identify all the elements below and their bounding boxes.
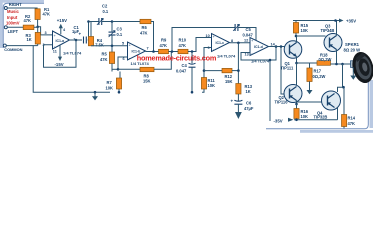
op-amp IC1-c — [206, 34, 234, 52]
ground arrow input rail — [92, 91, 98, 101]
svg-text:47K: 47K — [160, 43, 168, 48]
node output feedback junction — [341, 63, 344, 66]
op-amp IC1-a — [43, 28, 76, 53]
svg-text:RIGHT: RIGHT — [9, 2, 22, 7]
svg-text:10K: 10K — [301, 28, 309, 33]
svg-text:47K: 47K — [24, 18, 32, 23]
ground speaker return — [350, 67, 356, 79]
resistor R1 47K — [35, 7, 50, 27]
wire IC1-b output — [146, 51, 159, 53]
node LEFT input terminal — [4, 26, 18, 34]
svg-text:Input: Input — [7, 15, 18, 20]
node C4 ground rail — [191, 91, 194, 94]
transistor Q3 TIP34B — [321, 23, 343, 51]
wire R18 to speaker — [331, 63, 351, 65]
node B top rail — [111, 20, 114, 23]
wire base drive to Q2 — [281, 47, 286, 95]
resistor R16 10K — [294, 104, 309, 121]
resistor R10 47K — [178, 37, 188, 53]
node IC1-a output junction — [75, 39, 78, 42]
resistor R12 15K — [204, 68, 238, 83]
resistor R9 47K — [159, 37, 169, 53]
wire R15 to Q3 base — [296, 35, 326, 37]
svg-text:+: + — [231, 99, 234, 104]
label 1/4 TL074 IC1-c — [217, 53, 236, 58]
wire COMMON to ground rail — [33, 46, 110, 93]
ground below R17 — [307, 82, 313, 95]
svg-text:R14: R14 — [348, 116, 356, 121]
node Q2 emitter junction — [295, 103, 298, 106]
wire R4 to IC1-b pin5 — [91, 45, 129, 47]
svg-text:7.5K: 7.5K — [95, 43, 104, 48]
resistor R11 10K — [201, 78, 215, 93]
svg-text:0.047: 0.047 — [243, 32, 254, 37]
wire LEFT input to R2 — [7, 26, 23, 28]
svg-text:C2: C2 — [102, 4, 108, 9]
resistor R8 15K — [118, 67, 154, 83]
svg-text:IC1-c: IC1-c — [216, 41, 225, 45]
svg-text:0.1: 0.1 — [117, 32, 123, 37]
svg-text:LEFT: LEFT — [8, 29, 19, 34]
svg-text:+35V: +35V — [346, 19, 356, 24]
wire loop tap to -35V rail — [269, 59, 272, 121]
wire R8 to R9 R10 junction — [154, 52, 171, 70]
node junction R1 R2 R3 — [36, 26, 39, 29]
ground below C6 — [235, 104, 242, 119]
wire C5 feedback riser — [172, 28, 235, 52]
wire Q1 emitter to Q2 collector — [296, 63, 298, 85]
resistor R2 47K — [23, 14, 34, 30]
svg-text:1/4 TL074: 1/4 TL074 — [63, 51, 82, 56]
node RIGHT input terminal — [4, 2, 22, 9]
wire IC1-d feedback loop pin13 — [241, 47, 276, 61]
node base drive junction — [280, 45, 283, 48]
svg-text:IC1-a: IC1-a — [56, 39, 65, 43]
op-amp IC1-b — [122, 41, 149, 61]
node R15 Q1 collector junction — [295, 35, 298, 38]
wire C5 to output node — [238, 28, 256, 43]
node IC1-b output junction — [152, 50, 155, 53]
border frame top-left — [3, 3, 44, 48]
wire Q4 emitter to -35V rail — [337, 108, 339, 120]
svg-text:-15V: -15V — [55, 62, 64, 67]
svg-text:1/4 TL074: 1/4 TL074 — [251, 58, 270, 63]
svg-text:C6: C6 — [246, 100, 252, 105]
svg-text:R7: R7 — [107, 80, 113, 85]
label 1/4 TL074 IC1-b — [131, 61, 150, 66]
svg-text:Music: Music — [7, 9, 20, 14]
power -15V IC1-a — [55, 45, 64, 68]
svg-text:47K: 47K — [100, 57, 108, 62]
speaker SPKR1 8ohm 20W — [344, 42, 373, 85]
wire RIGHT input to R1 — [7, 7, 37, 9]
svg-text:0Ω,2W: 0Ω,2W — [313, 74, 326, 79]
svg-text:R17: R17 — [314, 68, 322, 73]
capacitor C2 0.1 — [97, 4, 109, 26]
watermark homemade-circuits.com — [137, 54, 217, 63]
page margin bottom-right light blue — [300, 80, 373, 133]
wire Q2 emitter to node — [296, 101, 298, 105]
page margin top-left light blue — [0, 0, 44, 48]
node Q3 output junction — [335, 63, 338, 66]
node C5 output junction — [255, 42, 258, 45]
wire Q4 collector — [338, 87, 344, 92]
power rail +35V — [293, 19, 356, 24]
svg-text:COMMON: COMMON — [4, 47, 22, 52]
wire Q3 emitter to output node — [336, 50, 338, 65]
svg-text:3: 3 — [45, 31, 47, 35]
resistor R13 1K — [236, 84, 253, 95]
svg-text:6: 6 — [123, 57, 125, 61]
resistor R3 1K — [26, 27, 41, 46]
svg-text:10K: 10K — [106, 86, 114, 91]
wire Q2 node to Q4 base — [297, 101, 322, 103]
svg-text:R9: R9 — [161, 37, 167, 42]
resistor R15 10K — [293, 21, 309, 37]
op-amp IC1-d — [244, 38, 276, 57]
wire output node down to R14 — [343, 64, 345, 115]
svg-text:10K: 10K — [208, 83, 216, 88]
svg-text:TIP111: TIP111 — [281, 65, 294, 70]
wire Q1 collector — [296, 36, 298, 43]
wire emitter node to R18 — [297, 62, 318, 64]
svg-text:15K: 15K — [225, 79, 233, 84]
node junction C3 R5 pin5 — [111, 45, 114, 48]
node junction R9 R10 C5 — [171, 50, 174, 53]
svg-text:47K: 47K — [348, 121, 356, 126]
resistor R14 47K — [342, 115, 356, 129]
svg-text:1K: 1K — [27, 37, 32, 42]
wire IC1-b pin6 elbow — [118, 57, 128, 69]
svg-text:10: 10 — [206, 34, 210, 38]
transistor Q1 TIP111 — [281, 41, 302, 71]
svg-text:47µF: 47µF — [244, 106, 254, 111]
capacitor C1 1uF — [72, 25, 86, 44]
label Music Input 100mV — [6, 9, 20, 25]
svg-text:11: 11 — [53, 50, 57, 54]
wire R10 to pin10 elbow — [188, 38, 212, 52]
node junction C4 tap — [191, 50, 194, 53]
wire IC1-c pin9 to R11 R12 — [204, 48, 212, 78]
node R12 R13 junction — [237, 69, 240, 72]
border bottom-right — [266, 70, 368, 129]
svg-text:R5: R5 — [102, 52, 108, 57]
svg-text:1/4 TL074: 1/4 TL074 — [217, 53, 236, 58]
resistor R5 47K — [100, 46, 115, 72]
wire C1 to node A riser — [87, 22, 90, 41]
svg-text:TIP34B: TIP34B — [321, 28, 335, 33]
resistor R17 0ohm2 2W — [307, 63, 326, 82]
capacitor C4 0.047 — [176, 52, 196, 93]
svg-text:R10: R10 — [179, 37, 187, 42]
wire Q1 emitter to node — [296, 57, 298, 64]
node A top rail — [87, 20, 90, 23]
svg-text:0.1: 0.1 — [103, 9, 109, 14]
wire node B to R6 — [112, 21, 140, 23]
svg-text:15K: 15K — [143, 78, 151, 83]
resistor R7 10K — [106, 72, 122, 93]
wire Q3 collector to +35V — [334, 19, 337, 35]
svg-text:+: + — [79, 31, 82, 36]
node R7 ground rail — [118, 91, 121, 94]
svg-text:10K: 10K — [301, 114, 309, 119]
transistor Q4 TIP32B — [314, 91, 341, 119]
svg-text:47K: 47K — [140, 30, 148, 35]
resistor R4 7.5K — [88, 22, 103, 48]
wire junction to IC1-a pin3 — [38, 27, 53, 35]
node R14 Q4 collector junction — [342, 86, 345, 89]
capacitor C6 47uF — [231, 94, 254, 111]
svg-text:IC1-d: IC1-d — [254, 45, 263, 49]
node pin6 R5 R7 junction — [117, 68, 120, 71]
svg-text:-35V: -35V — [274, 119, 283, 124]
svg-text:12: 12 — [244, 38, 248, 42]
wire COMMON to R3 — [6, 45, 37, 47]
node COMMON terminal — [3, 44, 22, 52]
resistor R18 0ohm2 2W — [317, 53, 331, 66]
wire R2 to junction — [34, 26, 38, 29]
svg-text:0Ω,2W: 0Ω,2W — [319, 57, 332, 62]
svg-text:C3: C3 — [117, 27, 123, 32]
wire C2 to node B — [102, 21, 112, 23]
svg-text:SPKR1: SPKR1 — [345, 42, 360, 47]
svg-text:1K: 1K — [246, 89, 251, 94]
label 1/4 TL074 IC1-d — [251, 58, 270, 63]
wire IC1-a feedback loop to pin2 — [44, 40, 77, 67]
transistor Q2 TIP116 — [275, 85, 303, 105]
svg-text:TIP116: TIP116 — [275, 99, 289, 104]
capacitor C5 0.047 — [233, 24, 253, 37]
node IC1-d output junction — [275, 45, 278, 48]
svg-text:7: 7 — [147, 47, 149, 51]
power +15V IC1-a — [57, 18, 67, 35]
wire R6 to IC1-b output — [151, 22, 154, 52]
svg-text:0.047: 0.047 — [176, 68, 187, 73]
svg-text:47K: 47K — [179, 43, 187, 48]
wire output to R13 column — [237, 43, 239, 84]
wire R9 to R10 — [169, 51, 179, 53]
svg-text:C4: C4 — [182, 63, 188, 68]
svg-text:+15V: +15V — [57, 18, 67, 23]
node Q1 emitter junction — [295, 62, 298, 65]
svg-text:5: 5 — [122, 41, 124, 45]
node IC1-c output junction — [237, 42, 240, 45]
svg-text:8Ω 20 W: 8Ω 20 W — [344, 47, 361, 52]
wire IC1-d output to Q1 Q2 bases — [269, 46, 286, 48]
svg-text:TIP32B: TIP32B — [314, 114, 328, 119]
svg-text:homemade-circuits.com: homemade-circuits.com — [137, 54, 217, 63]
label 1/4 TL074 IC1-a — [63, 51, 82, 56]
wire R5 to pin6 node — [112, 68, 118, 70]
svg-text:100mV: 100mV — [6, 21, 20, 26]
svg-text:R6: R6 — [142, 25, 148, 30]
node junction R11 R12 — [203, 69, 206, 72]
wire IC1-c output to IC1-d pin12 — [230, 42, 251, 44]
wire IC1-a output to C1 — [70, 39, 83, 41]
svg-text:47K: 47K — [43, 11, 51, 16]
capacitor C3 0.1 — [109, 22, 123, 47]
resistor R6 47K feedback — [140, 19, 151, 35]
wire top rail node A to C2 — [89, 21, 100, 23]
power rail -35V — [274, 118, 338, 124]
